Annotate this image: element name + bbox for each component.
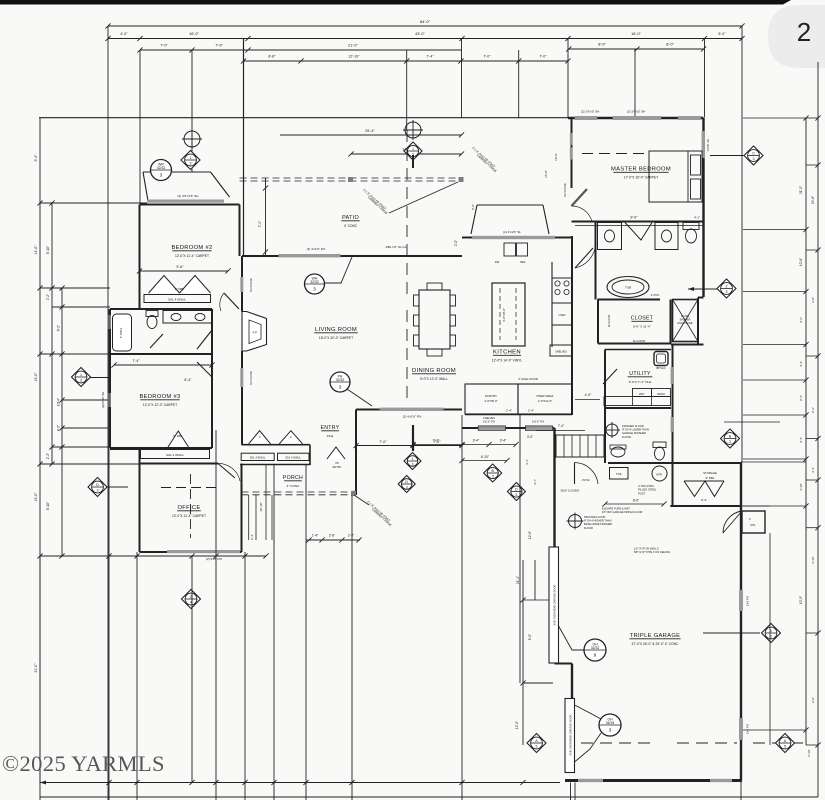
kitchen shelves box [550,345,572,356]
svg-text:7'-4": 7'-4" [426,55,434,59]
svg-text:FILLED STEEL: FILLED STEEL [638,488,657,492]
stairs [556,435,604,457]
svg-text:SH 4 INSUL: SH 4 INSUL [249,277,253,292]
bath2 toilet [146,311,158,317]
svg-text:6" DBL: 6" DBL [175,287,185,291]
svg-text:SH & ROD: SH & ROD [607,315,611,328]
utility north wall [605,349,671,351]
svg-text:1: 1 [412,457,414,461]
svg-text:BEDROOM #2: BEDROOM #2 [171,245,212,251]
kitchen label [492,350,523,363]
svg-text:SELF CLOSING: SELF CLOSING [561,489,580,493]
mbath vanity right [655,223,678,250]
bedroom2 door [224,293,239,309]
garage door 1 [549,547,559,663]
svg-text:7'-0": 7'-0" [160,44,168,48]
shower [670,300,672,344]
long vertical extension lines [39,556,41,800]
bottom outer line [40,796,818,798]
garage centerline diamond left [527,734,546,753]
svg-text:4'-4": 4'-4" [811,467,815,473]
svg-text:21'-0": 21'-0" [348,44,358,48]
left dimension line B [51,203,53,464]
svg-text:2'-0": 2'-0" [811,697,815,703]
svg-text:2'-0"X11'-0": 2'-0"X11'-0" [538,399,552,403]
svg-text:7'-0": 7'-0" [483,55,491,59]
svg-text:DW: DW [495,260,500,264]
svg-text:12'-0"X 12'-0" CARPET: 12'-0"X 12'-0" CARPET [143,403,177,407]
svg-text:KITCHEN: KITCHEN [493,350,521,356]
svg-text:3: 3 [515,493,517,497]
svg-text:3: 3 [412,463,414,467]
svg-text:4'-0"X8'-0": 4'-0"X8'-0" [502,308,506,322]
svg-text:FLOOR: FLOOR [584,526,593,530]
svg-text:(2) 2'6"x5' SH: (2) 2'6"x5' SH [627,110,645,114]
svg-text:1: 1 [412,147,414,151]
right ref diamond C3 [744,146,763,165]
kitchen east cabinets [551,262,553,347]
bedroom2 closet shelf [144,295,211,303]
left dim row y354 [40,353,110,355]
svg-text:2'-2": 2'-2" [46,294,50,300]
porch dashed edge [242,491,353,493]
svg-text:14'-0": 14'-0" [34,492,38,502]
svg-text:4'-10": 4'-10" [811,556,815,564]
svg-text:OFFICE: OFFICE [177,505,200,511]
svg-text:10'-8": 10'-8" [799,258,803,266]
office ref diamond [88,478,107,497]
svg-text:TUB: TUB [625,286,631,290]
bedroom2 bay window sill [147,200,224,203]
svg-text:6'-10": 6'-10" [807,749,811,757]
right dim line B [817,62,819,797]
porch dim row [306,539,360,541]
svg-text:4'-0": 4'-0" [585,393,593,397]
top black banner bar [0,0,791,5]
svg-text:DINING ROOM: DINING ROOM [412,368,456,374]
svg-text:ENCLOSURE: ENCLOSURE [678,322,693,325]
entry east wall [355,410,357,496]
garage floor target [567,513,584,530]
svg-text:9'-4": 9'-4" [34,154,38,162]
svg-text:32/32: 32/32 [157,166,166,170]
svg-text:2'-2": 2'-2" [46,453,50,459]
bedroom2 window ref circle [151,160,172,181]
garage floor target 2 [604,422,620,438]
svg-text:17'-0"X 16'-0" CARPET: 17'-0"X 16'-0" CARPET [624,176,658,180]
living window ref circle upper [305,274,325,294]
svg-text:7'-4": 7'-4" [558,424,564,428]
bedroom3 closet doors [168,431,189,447]
closet walls [597,300,599,344]
svg-text:4'-2": 4'-2" [799,317,803,323]
top dimension row 3 [140,49,248,51]
svg-text:31'-0": 31'-0" [799,186,803,194]
porch ref diamond [182,590,201,609]
page number badge 2 [768,5,825,68]
svg-text:5: 5 [536,745,538,749]
svg-text:D: D [405,480,408,484]
bedroom2 label [171,245,212,258]
svg-text:2'-4": 2'-4" [250,534,254,540]
svg-text:SHELVES: SHELVES [555,350,567,354]
svg-text:2'x4' FIX: 2'x4' FIX [746,724,750,734]
svg-text:TRIPLE GARAGE: TRIPLE GARAGE [630,633,681,639]
garage west wall [553,428,555,548]
svg-text:24'-8": 24'-8" [811,196,815,204]
left dim row y447 [52,446,110,448]
patio dim 7'-0 vertical [265,178,267,256]
powder toilet [653,442,666,448]
svg-text:D: D [96,483,99,487]
svg-text:2'-4": 2'-4" [506,409,512,413]
svg-text:IF OV-4 LOWER THAN: IF OV-4 LOWER THAN [622,428,649,432]
svg-text:16'-0": 16'-0" [631,32,641,36]
svg-text:2: 2 [726,284,728,288]
top extension lines [107,26,109,800]
svg-text:4" CONC: 4" CONC [344,224,358,228]
svg-text:ENTRY: ENTRY [333,465,342,469]
top dimension row 84'-0 [108,25,742,27]
patio label [341,215,359,228]
svg-text:SGL 4 INSUL: SGL 4 INSUL [168,298,186,302]
svg-text:2'-0"X8'-0": 2'-0"X8'-0" [484,399,497,403]
svg-text:8'-8": 8'-8" [268,55,276,59]
garage wall jog [555,663,573,665]
svg-text:(2) 4'x1'6" FIX: (2) 4'x1'6" FIX [307,247,326,251]
living west wall upper window [241,256,243,312]
svg-text:8'-10": 8'-10" [46,246,50,254]
svg-text:DRY: DRY [639,392,645,396]
entry west jog [309,445,311,465]
hall door leaves [197,330,212,349]
top dimension row 4 [244,60,569,62]
mbath toilet [683,223,699,230]
left dim row y464 [40,463,139,465]
svg-text:21'-4": 21'-4" [516,576,520,584]
powder sink [611,447,625,457]
svg-text:1/2" GYP ON WALLS: 1/2" GYP ON WALLS [634,547,659,551]
washer dryer [633,389,652,397]
bedroom2 north wall [140,204,240,206]
patio dim row 25'-4 [280,134,462,136]
kitchen sink [504,243,516,256]
svg-text:6'-6"X 7'-4" TILE: 6'-6"X 7'-4" TILE [629,380,652,384]
left dimension line C [61,288,63,556]
svg-text:C: C [752,151,755,155]
svg-text:6" DBL: 6" DBL [173,434,183,438]
porch window boxes [241,453,274,460]
svg-text:32/32: 32/32 [310,280,319,284]
utility south wall [604,407,671,409]
garage dim rows center [413,444,462,446]
svg-text:BP SAC: BP SAC [656,367,665,370]
svg-text:10'-4": 10'-4" [57,398,61,406]
office jog wall [110,448,140,450]
svg-text:8'-0": 8'-0" [528,634,532,640]
svg-text:(2) 2'6"x5' SH: (2) 2'6"x5' SH [581,110,599,114]
svg-text:1: 1 [80,373,82,377]
right dim line A [805,118,807,746]
master label [611,167,671,180]
bedroom3 closet shelf [141,450,210,459]
svg-text:REF.: REF. [520,260,526,264]
svg-text:21'-0": 21'-0" [34,663,38,673]
office west wall [139,449,141,552]
svg-text:9'-0": 9'-0" [630,216,638,220]
bedroom3 west wall with window [109,354,111,448]
water heater [652,466,667,481]
kitchen north wall window [462,237,572,239]
left dim row y400 [62,399,108,401]
svg-text:(2) 9'x5' FIX: (2) 9'x5' FIX [206,557,222,561]
svg-text:12'-6": 12'-6" [528,531,532,539]
mbath wc door [625,223,652,241]
right ref diamond 23 [717,279,736,298]
svg-text:4'-7": 4'-7" [533,479,537,485]
svg-text:12'-0": 12'-0" [515,721,519,729]
svg-text:3: 3 [492,475,494,479]
svg-text:2'x4' FIX: 2'x4' FIX [746,596,750,606]
garage man door [575,463,599,485]
living centerline [406,130,408,300]
svg-text:5'-0": 5'-0" [718,32,726,36]
svg-text:MASTER BEDROOM: MASTER BEDROOM [611,167,671,173]
svg-text:3: 3 [97,489,99,493]
bedroom3 east wall [211,309,213,448]
toil box [610,468,629,480]
svg-text:WTR.: WTR. [656,474,663,477]
svg-text:84'-0": 84'-0" [420,19,431,24]
svg-text:ELEVATE FURN & WAT: ELEVATE FURN & WAT [602,507,630,511]
svg-text:10'-0": 10'-0" [554,153,558,161]
master entry door [572,189,588,206]
svg-text:6" DBL: 6" DBL [706,476,715,480]
svg-text:37'-0"X 26'-0" & 29'-0" 4" CON: 37'-0"X 26'-0" & 29'-0" 4" CONC [632,642,680,646]
svg-text:14'-0": 14'-0" [34,372,38,382]
svg-text:12'-0"X 14'-0" VINYL: 12'-0"X 14'-0" VINYL [492,359,523,363]
mbath vanity left [598,223,622,250]
svg-text:2'-4": 2'-4" [799,395,803,401]
svg-text:12'-0"X 11'-4" CARPET: 12'-0"X 11'-4" CARPET [175,254,209,258]
master east lower wall [702,222,704,298]
bedroom2 closet doors [149,276,180,294]
master south wall [572,221,704,223]
garage door circle 1 [584,639,606,661]
svg-text:TILE: TILE [327,434,334,438]
porch label [283,475,303,488]
left dim row y288 [40,287,110,289]
svg-text:FINISHED FLOOR: FINISHED FLOOR [622,424,644,428]
dining label [412,368,456,381]
svg-text:16'-0": 16'-0" [544,170,548,178]
svg-text:12'-0"X 11'-4" CARPET: 12'-0"X 11'-4" CARPET [172,514,206,518]
garage east wall with windows [740,462,742,781]
wall below shower [671,344,704,346]
top dimension row 2 [108,38,742,40]
mbath hall door [575,248,593,268]
bath2 north wall [110,308,212,310]
bedroom2 dim 9'-6 [140,270,229,272]
garage door circle 2 [599,714,621,736]
garage centerline diamond right [776,734,795,753]
utility door [603,369,617,384]
svg-text:7'-0": 7'-0" [433,439,441,443]
svg-text:DBL 1'6" SL GL: DBL 1'6" SL GL [386,245,407,249]
svg-text:7'-0": 7'-0" [379,440,387,444]
utility east wall with windows [672,345,674,507]
svg-text:9'-6": 9'-6" [176,265,184,269]
utility west wall [604,350,606,464]
bath2 door [150,334,163,348]
patio dim row 14'-4 [351,153,462,155]
entry label [321,425,340,438]
entry door gable [327,447,345,459]
svg-text:4'-0": 4'-0" [120,32,128,36]
svg-text:7'-0": 7'-0" [258,220,262,228]
living west wall lower window [241,351,243,445]
svg-text:7'-4": 7'-4" [132,359,140,363]
svg-text:14'-0": 14'-0" [34,245,38,255]
closet label [631,316,654,329]
svg-text:3'-8": 3'-8" [811,297,815,303]
bath2 tub [113,314,132,351]
svg-text:3'x1'6" FIX: 3'x1'6" FIX [483,420,496,424]
svg-text:4'-4": 4'-4" [799,361,803,367]
right side rows garage [741,461,806,463]
garage left dim col [522,560,524,745]
svg-text:3'-0": 3'-0" [527,435,533,439]
svg-text:7'-0": 7'-0" [215,44,223,48]
svg-text:3'x1'6" FIX: 3'x1'6" FIX [532,420,545,424]
svg-text:SGL 4 INSUL: SGL 4 INSUL [285,456,301,460]
svg-text:7'-0": 7'-0" [539,55,547,59]
svg-text:©2025 YARMLS: ©2025 YARMLS [2,751,165,776]
svg-text:STORAGE: STORAGE [703,471,717,475]
svg-text:3' POC: 3' POC [651,293,660,297]
bedroom3 north wall [110,353,212,355]
svg-text:8'-6" X 11'-4": 8'-6" X 11'-4" [633,325,651,329]
svg-text:5/8" GYP TYPE X ON CEILING: 5/8" GYP TYPE X ON CEILING [634,550,670,554]
kitchen island [492,283,525,346]
svg-text:2'x3'6" SH: 2'x3'6" SH [706,139,710,151]
mbath tub wall [598,299,661,301]
svg-text:8'-0": 8'-0" [598,43,606,47]
svg-text:IF OV-4 HIGHER THAN: IF OV-4 HIGHER THAN [584,519,612,523]
svg-text:POST: POST [638,491,646,495]
svg-text:8'-6": 8'-6" [633,499,639,503]
svg-text:25'-4": 25'-4" [365,129,375,133]
patio left post symbols [182,129,202,149]
svg-text:OVEN: OVEN [559,314,566,317]
stair hall walls [462,427,555,429]
right dim rows [743,117,806,119]
svg-text:10'-10": 10'-10" [259,502,263,511]
office label [172,505,206,518]
svg-text:4" CONC: 4" CONC [287,484,301,488]
svg-text:3'0 SC: 3'0 SC [582,478,590,482]
bedroom3 south wall [110,447,212,449]
laundry sink [654,352,668,366]
svg-text:9'x8' OVERHEAD GARAGE DOOR: 9'x8' OVERHEAD GARAGE DOOR [569,714,573,755]
svg-text:(2) 4'x1'6" SL: (2) 4'x1'6" SL [503,230,521,234]
porch left small dims [248,495,250,540]
svg-text:4'-10": 4'-10" [799,483,803,491]
master east wall with window [702,118,704,222]
garage south wall [565,779,742,782]
patio dashed edge lines [240,177,463,179]
svg-text:2'-4": 2'-4" [348,534,354,538]
master centerline [582,153,648,155]
svg-text:LIVING ROOM: LIVING ROOM [315,327,357,333]
svg-text:3'-4": 3'-4" [473,439,481,443]
dining table [419,290,450,349]
svg-text:SGL 4 INSUL: SGL 4 INSUL [166,453,184,457]
svg-text:3'-4": 3'-4" [500,439,508,443]
svg-text:MTL: MTL [750,523,756,527]
office east wall [241,464,243,553]
stair ref diamond D3 [507,483,525,501]
svg-text:18" OFF GARAGE FINISH FLOOR: 18" OFF GARAGE FINISH FLOOR [602,510,643,514]
bath2 west wall with window [109,309,111,354]
svg-text:SH 4 INSUL: SH 4 INSUL [563,182,567,197]
svg-text:8'-10": 8'-10" [46,502,50,510]
svg-text:6'-10": 6'-10" [481,455,489,459]
svg-text:BASE HOME FINISHED: BASE HOME FINISHED [584,522,612,526]
svg-text:ENTRY: ENTRY [321,425,340,431]
mbath hall west wall [595,222,597,300]
svg-text:CLOSET: CLOSET [631,316,654,322]
svg-text:4'-4": 4'-4" [799,437,803,443]
svg-text:2'-4": 2'-4" [528,409,534,413]
fireplace [242,312,267,352]
svg-text:5' TUB &: 5' TUB & [119,328,123,339]
svg-text:3: 3 [726,290,728,294]
svg-text:9'-4": 9'-4" [701,498,707,502]
svg-text:SHELVES: SHELVES [483,416,495,420]
bath2 vanity [163,311,212,324]
svg-text:4'-1": 4'-1" [525,459,529,465]
dining door post [412,425,414,451]
garage door 2 [565,699,575,773]
porch north wall doors [242,444,311,446]
svg-text:PATIO: PATIO [342,215,359,221]
svg-text:PROVIDE FLOOR: PROVIDE FLOOR [584,515,605,519]
svg-text:D: D [515,487,518,491]
svg-text:9'-0"X 12'-0" WALL: 9'-0"X 12'-0" WALL [420,377,448,381]
svg-text:3: 3 [753,157,755,161]
mbath tub [607,277,649,298]
svg-text:4'-2": 4'-2" [57,425,61,431]
left dim row y428 [62,427,108,429]
svg-text:34/34: 34/34 [606,721,615,725]
svg-text:3: 3 [729,440,731,444]
patio post centerline symbols [403,120,423,140]
dining south wall with window [356,409,462,411]
svg-text:16'-0": 16'-0" [189,32,199,36]
office door [218,464,235,479]
master north wall with windows [568,117,704,119]
storage north wall [608,462,742,464]
svg-text:2'-8": 2'-8" [329,534,335,538]
svg-text:PANTRY: PANTRY [485,394,497,398]
svg-text:PREP AREA: PREP AREA [537,394,554,398]
svg-text:6'-4": 6'-4" [184,378,192,382]
dining centerline [406,310,408,404]
svg-text:8'-0": 8'-0" [666,43,674,47]
svg-text:5: 5 [784,745,786,749]
bedroom3 label [139,394,180,407]
